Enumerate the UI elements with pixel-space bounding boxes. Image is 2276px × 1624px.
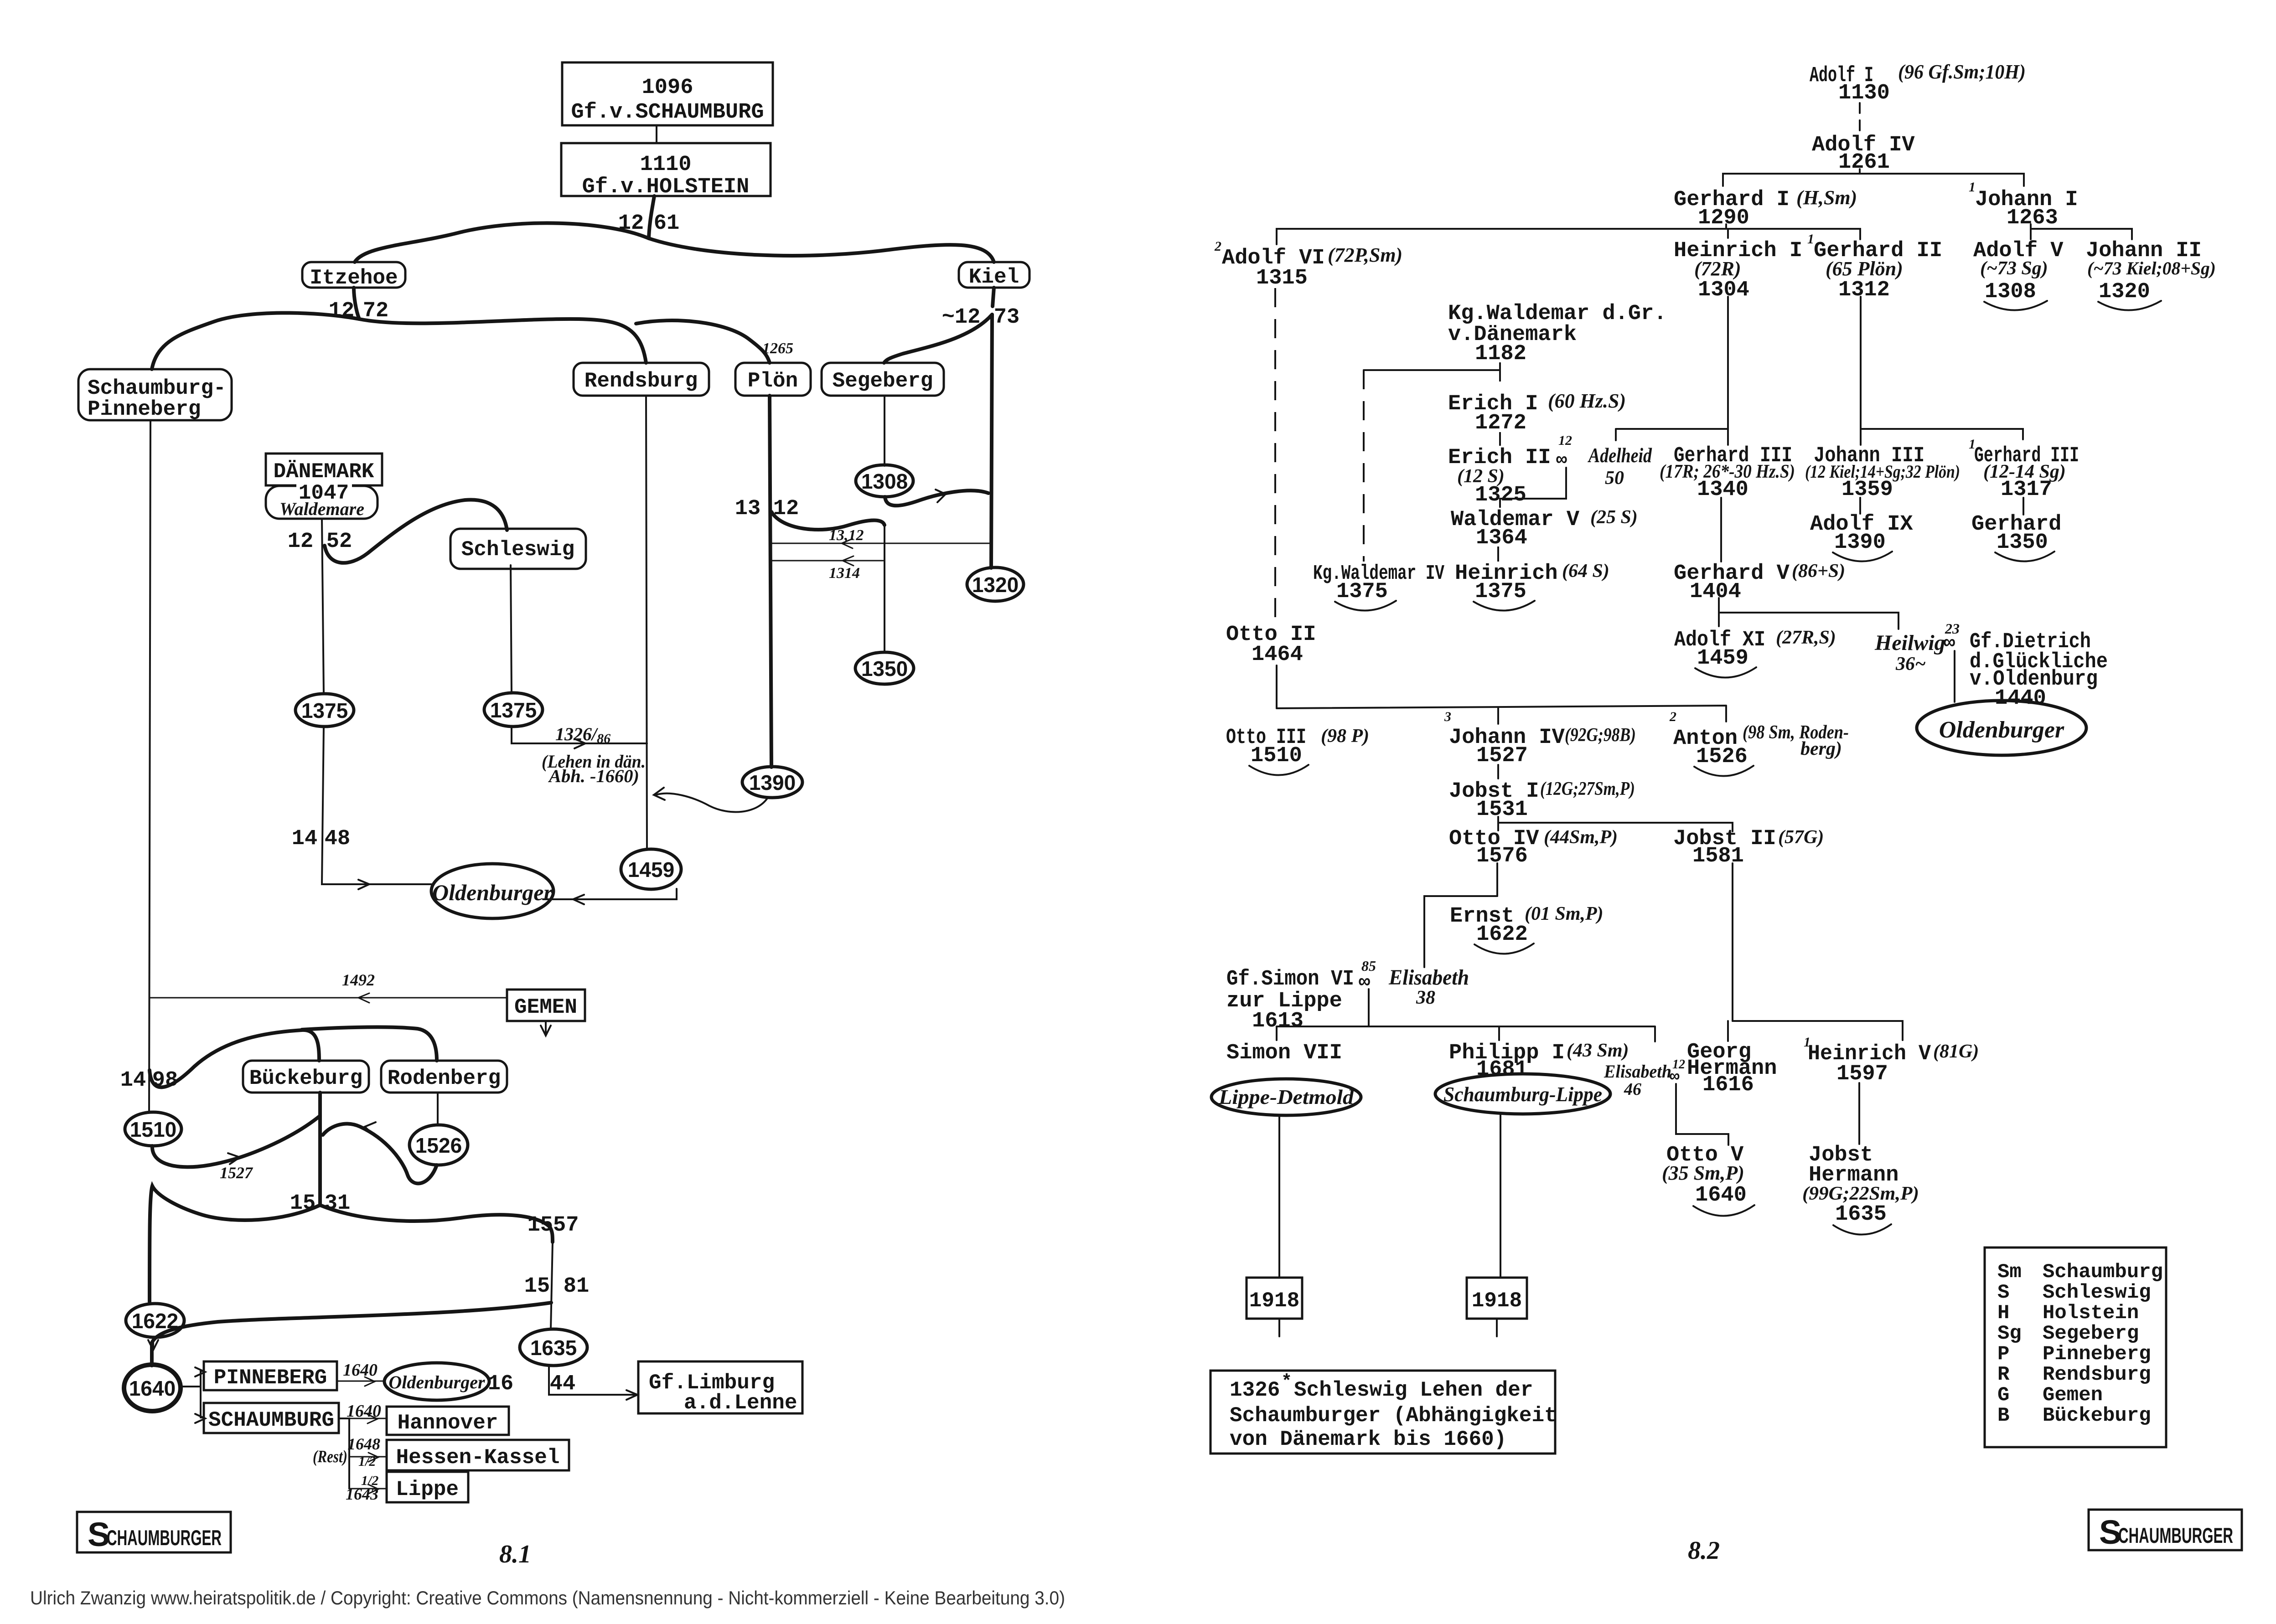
wire arm to Hessen-Kassel (349, 1456, 387, 1458)
node Jobst I (1449, 778, 1635, 822)
svg-text:1320: 1320 (972, 573, 1019, 597)
arrow 1492 (358, 993, 369, 1003)
wire Rodenberg to 1526 (437, 1093, 439, 1125)
wire Waldemar IV dashed vertical (1363, 370, 1365, 562)
svg-text:61: 61 (654, 211, 679, 236)
svg-text:1510: 1510 (1251, 744, 1302, 768)
svg-text:1459: 1459 (628, 858, 674, 882)
arrow 1326/86 (574, 739, 585, 748)
svg-text:73: 73 (994, 305, 1019, 330)
node Otto II (1226, 623, 1316, 667)
wire Ploen line down to 1390 (770, 396, 771, 767)
wire Kiel split left to Segeberg (884, 314, 992, 363)
wire 1531 split right to 1557 (320, 1205, 553, 1242)
svg-text:Gf.v.SCHAUMBURG: Gf.v.SCHAUMBURG (571, 100, 764, 124)
ellipse 1320 (967, 567, 1024, 601)
wire Heinrich I hang (1727, 229, 1729, 238)
svg-text:Gf.v.HOLSTEIN: Gf.v.HOLSTEIN (582, 175, 750, 199)
wire Dietrich marriage down (1954, 651, 1955, 702)
svg-text:1640: 1640 (129, 1377, 176, 1400)
svg-text:Elisabeth: Elisabeth (1604, 1061, 1671, 1082)
svg-text:(35 Sm,P): (35 Sm,P) (1662, 1162, 1744, 1184)
wire bar Gerhard V children (1719, 613, 1898, 629)
svg-text:*: * (1281, 1372, 1292, 1392)
svg-text:B: B (1997, 1404, 2009, 1427)
wire 1510 curve 1527 to Bueckeburg line (152, 1116, 320, 1167)
svg-text:44: 44 (550, 1372, 575, 1396)
wire transfer 1312 (771, 543, 991, 544)
ellipse Oldenburger small (384, 1363, 489, 1400)
wire 1635 to Gf.Limburg (549, 1366, 636, 1395)
svg-text:Pinneberg: Pinneberg (88, 397, 201, 421)
ellipse 1390 (742, 767, 802, 798)
wire bar Gerhard II children (1861, 429, 2023, 445)
ellipse Lippe-Detmold (1211, 1079, 1361, 1115)
svg-text:1918: 1918 (1249, 1289, 1299, 1313)
wire dashed to Waldemar V (1499, 499, 1501, 508)
node elisabeth 46 (1604, 1057, 1685, 1099)
arrow transfer 1312 (842, 539, 853, 548)
node Schleswig (450, 529, 586, 569)
wire Johann III to Adolf IX (1859, 498, 1861, 514)
svg-text:Waldemare: Waldemare (279, 499, 364, 519)
svg-text:1263: 1263 (2007, 206, 2058, 230)
svg-text:Sg: Sg (1997, 1322, 2022, 1345)
box Lippe (387, 1472, 468, 1502)
svg-text:(44Sm,P): (44Sm,P) (1544, 827, 1618, 848)
wire 1557 down through 1581 to 1635 (551, 1242, 553, 1330)
node Otto IV (1449, 827, 1618, 868)
arrow into Oldenburger left (358, 880, 369, 889)
wire Adolf I dashed (1859, 103, 1861, 131)
svg-text:Oldenburger: Oldenburger (388, 1372, 485, 1392)
node Segeberg (822, 363, 944, 396)
svg-text:1527: 1527 (220, 1164, 253, 1182)
svg-text:Plön: Plön (748, 369, 798, 393)
svg-text:(98 P): (98 P) (1321, 726, 1369, 747)
node Jobst II (1673, 827, 1824, 868)
svg-text:(65 Plön): (65 Plön) (1826, 258, 1903, 280)
node Ernst (1450, 903, 1604, 954)
box Gf.Limburg a.d.Lenne (638, 1361, 802, 1415)
node Anton (1669, 709, 1849, 776)
wire Itzehoe stem (354, 288, 359, 319)
wire Johann IV to Jobst I (1497, 765, 1499, 778)
svg-text:(81G): (81G) (1933, 1041, 1979, 1062)
arrow below GEMEN (541, 1021, 551, 1036)
node Gerhard 1350 (1971, 512, 2061, 562)
svg-text:12: 12 (1558, 433, 1572, 448)
svg-text:(92G;98B): (92G;98B) (1565, 725, 1636, 746)
svg-text:Segeberg: Segeberg (833, 369, 933, 393)
node Georg Hermann (1687, 1040, 1777, 1097)
arrow 1622 down (148, 1337, 158, 1350)
node Adolf IV (1812, 133, 1915, 175)
svg-text:GEMEN: GEMEN (514, 995, 577, 1019)
svg-text:Holstein: Holstein (2043, 1302, 2139, 1325)
svg-text:52: 52 (326, 530, 352, 554)
wire Daenemark line down to 1375 (322, 519, 324, 694)
svg-text:1364: 1364 (1476, 526, 1527, 550)
svg-text:1510: 1510 (130, 1118, 176, 1141)
svg-text:Adelheid: Adelheid (1588, 443, 1652, 467)
svg-text:1290: 1290 (1698, 206, 1749, 230)
svg-text:Abh. -1660): Abh. -1660) (548, 766, 639, 786)
node Erich II (1448, 433, 1572, 507)
svg-text:1375: 1375 (490, 698, 537, 722)
node Gf.Simon VI zur Lippe (1226, 967, 1354, 1033)
svg-text:1350: 1350 (1997, 531, 2048, 555)
svg-text:2: 2 (1214, 239, 1221, 254)
wire Waldemar chain dashed top (1499, 362, 1501, 390)
svg-text:berg): berg) (1800, 738, 1842, 759)
arrow transfer 1314 (843, 556, 853, 566)
svg-text:1375: 1375 (1475, 580, 1526, 604)
svg-text:1308: 1308 (1985, 280, 2036, 304)
wire Gerhard III line down to Gerhard V (1720, 498, 1722, 562)
node Kg.Waldemar d.Gr. (1448, 302, 1666, 366)
svg-text:Segeberg: Segeberg (2043, 1322, 2139, 1345)
wire Waldemar horizontal to Waldemar IV branch (1364, 369, 1500, 371)
wire Simon VI marriage down (1368, 989, 1370, 1026)
node Heinrich V (1804, 1035, 1979, 1086)
svg-text:14: 14 (292, 827, 317, 851)
wire Adolf VI dashed down to Otto II (1274, 288, 1276, 621)
node Kg.Waldemar IV (1313, 562, 1444, 611)
ellipse 1526 (409, 1125, 468, 1165)
svg-text:(64 S): (64 S) (1562, 561, 1609, 582)
svg-text:1340: 1340 (1697, 478, 1748, 502)
svg-text:2: 2 (1669, 709, 1676, 724)
svg-text:Simon VII: Simon VII (1226, 1041, 1342, 1065)
wire arm to Lippe (349, 1488, 387, 1490)
wire Waldemare to Schleswig (325, 500, 507, 562)
node Otto III (1226, 726, 1369, 775)
svg-text:(~73 Sg): (~73 Sg) (1980, 258, 2048, 279)
svg-text:(H,Sm): (H,Sm) (1796, 186, 1857, 209)
svg-text:Schaumburg-: Schaumburg- (88, 376, 226, 400)
svg-text:(43 Sm): (43 Sm) (1567, 1040, 1629, 1061)
svg-text:1314: 1314 (829, 565, 860, 582)
svg-text:(01 Sm,P): (01 Sm,P) (1525, 903, 1604, 924)
ellipse Schaumburg-Lippe (1435, 1074, 1610, 1114)
wire GEMEN to left line (149, 997, 507, 999)
svg-text:8.1: 8.1 (499, 1540, 531, 1568)
node Kiel (959, 262, 1029, 289)
node Schaumburg-Pinneberg (78, 369, 232, 421)
svg-text:S: S (1997, 1281, 2009, 1304)
box PINNEBERG (204, 1361, 337, 1390)
svg-text:(72R): (72R) (1694, 258, 1741, 280)
svg-text:Schleswig: Schleswig (461, 538, 574, 562)
box SCHAUMBURGER left (77, 1512, 231, 1553)
node Johann II (2086, 239, 2216, 310)
svg-text:1404: 1404 (1690, 580, 1741, 604)
svg-text:1350: 1350 (861, 657, 908, 681)
box note 1326 (1210, 1371, 1557, 1454)
svg-text:36~: 36~ (1895, 654, 1926, 675)
svg-text:(72P,Sm): (72P,Sm) (1328, 244, 1402, 266)
svg-text:Lippe-Detmold: Lippe-Detmold (1218, 1085, 1354, 1108)
svg-text:1613: 1613 (1252, 1009, 1304, 1033)
svg-text:1096: 1096 (642, 76, 693, 100)
svg-text:Bückeburg: Bückeburg (2043, 1404, 2151, 1427)
svg-text:Oldenburger: Oldenburger (432, 880, 553, 905)
svg-text:12: 12 (288, 530, 313, 554)
svg-text:1464: 1464 (1252, 643, 1303, 667)
svg-text:1635: 1635 (530, 1336, 577, 1360)
wire Schaumburg-Lippe down to 1918 (1500, 1114, 1501, 1278)
wire 1375L down and right to Oldenburger (322, 727, 431, 884)
ellipse 1375 left (295, 694, 354, 727)
svg-text:12: 12 (329, 299, 354, 323)
svg-text:~12: ~12 (942, 305, 981, 330)
wire Kiel stem (993, 288, 994, 306)
wire Erich II marriage L (1500, 468, 1566, 499)
svg-text:Schleswig Lehen der: Schleswig Lehen der (1294, 1378, 1533, 1402)
svg-text:Hessen-Kassel: Hessen-Kassel (396, 1446, 560, 1469)
wire 1272 split right to Rendsburg and Ploen (359, 319, 646, 363)
svg-text:1918: 1918 (1472, 1289, 1522, 1313)
svg-text:98: 98 (152, 1068, 178, 1093)
wire 1272 split left to Schaumburg-Pinneberg (152, 313, 359, 369)
node Adolf V (1973, 239, 2064, 310)
svg-text:1640: 1640 (347, 1402, 381, 1421)
node Bueckeburg (243, 1061, 369, 1093)
wire Waldemar V dashed (1497, 546, 1499, 562)
svg-text:(25 S): (25 S) (1590, 507, 1638, 528)
node Elisabeth 38 (1359, 958, 1469, 1008)
svg-text:(27R,S): (27R,S) (1776, 627, 1836, 648)
arrow into SCHAUMBURG (195, 1414, 205, 1423)
svg-text:38: 38 (1416, 987, 1435, 1008)
ellipse 1635 (520, 1329, 587, 1366)
svg-text:Gemen: Gemen (2043, 1384, 2103, 1407)
node Ploen (735, 363, 811, 396)
svg-text:P: P (1997, 1343, 2009, 1366)
svg-text:von Dänemark bis 1660): von Dänemark bis 1660) (1230, 1428, 1506, 1451)
node Gerhard I (1674, 186, 1857, 230)
svg-text:1526: 1526 (415, 1134, 462, 1157)
wire Gerhard III second to Gerhard (2023, 498, 2024, 515)
wire Schaumburg-Pinneberg long line down (149, 420, 150, 1113)
svg-text:1312: 1312 (1838, 278, 1890, 302)
wire Adolf IV stem (1859, 169, 1861, 174)
svg-text:1643: 1643 (346, 1485, 378, 1503)
node Itzehoe (302, 262, 405, 290)
wire bar Heinrich I children (1616, 429, 1728, 445)
box 1918 right (1467, 1278, 1527, 1319)
ellipse Oldenburger right page (1917, 701, 2086, 755)
svg-text:1492: 1492 (342, 971, 375, 989)
svg-text:1375: 1375 (1336, 580, 1388, 604)
wire Heinrich V line down (1858, 1083, 1860, 1144)
node Gf.Dietrich (1970, 630, 2108, 711)
ellipse 1350 (855, 652, 914, 684)
svg-text:1526: 1526 (1696, 745, 1748, 769)
svg-text:1304: 1304 (1698, 278, 1749, 302)
wire 1261 split right to Kiel (649, 238, 994, 262)
svg-text:Rodenberg: Rodenberg (388, 1067, 501, 1090)
node Otto V (1662, 1143, 1754, 1216)
node Johann IV (1444, 709, 1636, 768)
svg-text:1640: 1640 (1695, 1183, 1747, 1207)
wire 1531 split left down to 1622 line (150, 1186, 320, 1302)
wire Holstein stem (649, 196, 654, 238)
svg-text:a.d.Lenne: a.d.Lenne (684, 1391, 797, 1415)
svg-text:CHAUMBURGER: CHAUMBURGER (2118, 1523, 2233, 1547)
svg-text:1317: 1317 (2001, 478, 2052, 502)
arrow 1308 merge (936, 490, 946, 502)
wire 1390 merge arrow to Rendsburg line (656, 794, 768, 812)
svg-text:Gf.Simon VI: Gf.Simon VI (1226, 967, 1354, 991)
wire Lippe-Detmold down to 1918 (1278, 1115, 1280, 1278)
svg-text:1326: 1326 (1230, 1378, 1280, 1402)
node Johann I (1969, 180, 2078, 230)
svg-text:H: H (1997, 1302, 2009, 1325)
ellipse 1308 (856, 465, 913, 497)
arrow 1527 (228, 1153, 240, 1164)
svg-text:1265: 1265 (762, 340, 793, 357)
wire 1640 bracket to Pinneberg and Schaumburg (181, 1371, 204, 1418)
svg-text:SCHAUMBURG: SCHAUMBURG (208, 1408, 334, 1432)
ellipse 1459 (621, 849, 681, 889)
svg-text:Schaumburger (Abhängigkeit: Schaumburger (Abhängigkeit (1230, 1404, 1557, 1428)
node Adolf IX (1810, 512, 1913, 562)
svg-text:1531: 1531 (1476, 798, 1528, 822)
svg-text:(~73 Kiel;08+Sg): (~73 Kiel;08+Sg) (2087, 258, 2216, 278)
node Gerhard V (1674, 561, 1845, 604)
svg-text:1272: 1272 (1475, 411, 1526, 435)
svg-text:Pinneberg: Pinneberg (2043, 1343, 2151, 1366)
svg-text:1640: 1640 (343, 1361, 378, 1380)
ellipse 1375 right (484, 693, 543, 727)
svg-text:(60 Hz.S): (60 Hz.S) (1548, 390, 1626, 412)
box 1918 left (1247, 1278, 1302, 1319)
svg-text:Schaumburg: Schaumburg (2043, 1261, 2163, 1284)
svg-text:(Rest): (Rest) (313, 1447, 347, 1466)
wire 1459 to Oldenburger (543, 889, 677, 899)
wire Erich I dashed (1499, 432, 1501, 446)
arrow into PINNEBERG (195, 1367, 205, 1377)
wire Otto IV line to Ernst bar (1424, 863, 1497, 967)
svg-text:Heilwig: Heilwig (1874, 631, 1945, 655)
node Adolf XI (1674, 627, 1836, 678)
svg-text:8.2: 8.2 (1688, 1536, 1720, 1565)
wire Jobst I stem and bar (1498, 817, 1733, 831)
svg-text:1616: 1616 (1702, 1073, 1754, 1097)
svg-text:1320: 1320 (2099, 280, 2150, 304)
node Waldemare bubble (266, 478, 378, 519)
node Simon VII (1226, 1041, 1342, 1065)
wire 1526 loop to Bueckeburg line (323, 1124, 437, 1184)
svg-text:1315: 1315 (1256, 266, 1308, 290)
box Hannover (387, 1407, 509, 1435)
svg-text:50: 50 (1605, 468, 1624, 489)
node Adolf VI (1214, 239, 1402, 290)
box SCHAUMBURG (204, 1403, 339, 1433)
wire Rendsburg line down to 1459 (646, 396, 647, 850)
wire 1581 sweep left to 1640 (152, 1303, 551, 1366)
svg-text:46: 46 (1624, 1080, 1641, 1099)
svg-text:Bückeburg: Bückeburg (249, 1067, 362, 1090)
node Gerhard III second (1969, 437, 2079, 502)
svg-text:81: 81 (564, 1274, 589, 1299)
wire Gerhard V stem (1718, 598, 1720, 613)
wire bar Simon VI children (1277, 1026, 1655, 1041)
svg-text:Elisabeth: Elisabeth (1388, 965, 1469, 990)
box Hessen-Kassel (387, 1440, 569, 1470)
svg-text:Rendsburg: Rendsburg (585, 369, 698, 393)
wire Heinrich I line down to bar Gerhard III (1727, 297, 1729, 429)
arrow 1526 merge (365, 1122, 376, 1136)
svg-text:1576: 1576 (1476, 844, 1528, 868)
svg-text:1390: 1390 (1834, 531, 1886, 555)
wire arm to Hannover (349, 1418, 387, 1419)
svg-text:1597: 1597 (1836, 1062, 1888, 1086)
arrow PINNEBERG-Oldenburger (365, 1377, 375, 1386)
svg-text:Rendsburg: Rendsburg (2043, 1363, 2151, 1386)
svg-text:(96 Gf.Sm;10H): (96 Gf.Sm;10H) (1898, 61, 2026, 83)
svg-text:1581: 1581 (1692, 844, 1744, 868)
svg-text:1681: 1681 (1476, 1057, 1528, 1082)
svg-text:∞: ∞ (1670, 1067, 1680, 1086)
wire SCHAUMBURG bracket down (339, 1418, 349, 1489)
svg-text:(12G;27Sm,P): (12G;27Sm,P) (1540, 778, 1635, 799)
wire Otto II line down (1276, 665, 1278, 708)
node Heinrich 64S (1455, 561, 1609, 611)
wire Gerhard I stem (1725, 224, 1727, 229)
svg-text:(86+S): (86+S) (1792, 561, 1845, 582)
svg-text:1110: 1110 (640, 153, 692, 177)
svg-text:(57G): (57G) (1778, 827, 1824, 848)
box SCHAUMBURGER right (2089, 1510, 2242, 1551)
svg-text:1440: 1440 (1995, 686, 2046, 711)
svg-text:PINNEBERG: PINNEBERG (214, 1366, 327, 1390)
wire Schleswig down to 1375 (511, 565, 512, 693)
svg-text:(99G;22Sm,P): (99G;22Sm,P) (1802, 1183, 1919, 1204)
svg-text:Schaumburg-Lippe: Schaumburg-Lippe (1443, 1083, 1602, 1106)
wire below 1918 right (1496, 1319, 1498, 1336)
svg-text:Hannover: Hannover (398, 1411, 498, 1435)
wire below 1918 left (1278, 1319, 1280, 1336)
svg-text:14: 14 (120, 1068, 146, 1093)
box DAENEMARK (266, 454, 382, 485)
wire 1096 to 1110 (656, 125, 657, 143)
svg-text:Schleswig: Schleswig (2043, 1281, 2151, 1304)
svg-text:1648: 1648 (347, 1435, 380, 1453)
svg-text:1375: 1375 (301, 699, 348, 722)
wire Jobst II long line down (1732, 863, 1733, 1021)
svg-text:13,12: 13,12 (829, 527, 864, 544)
wire Johann I stem and bar (2031, 224, 2132, 239)
node Jobst Hermann (1802, 1143, 1919, 1235)
svg-text:1130: 1130 (1838, 81, 1890, 105)
node Rendsburg (574, 363, 709, 396)
svg-text:48: 48 (325, 827, 350, 851)
svg-text:G: G (1997, 1384, 2009, 1407)
node Heilwig (1874, 620, 1960, 675)
svg-text:1622: 1622 (132, 1309, 178, 1333)
ellipse 1640 bold (124, 1365, 181, 1411)
wire transfer 1314 (771, 560, 883, 562)
svg-text:Lippe: Lippe (396, 1478, 459, 1501)
svg-text:Sm: Sm (1997, 1261, 2022, 1284)
wire bar Adolf IV children (1723, 174, 2024, 186)
box 1096 Gf.v.SCHAUMBURG (562, 62, 773, 125)
node Gerhard II (1807, 232, 1942, 302)
node Philipp I (1449, 1040, 1629, 1082)
